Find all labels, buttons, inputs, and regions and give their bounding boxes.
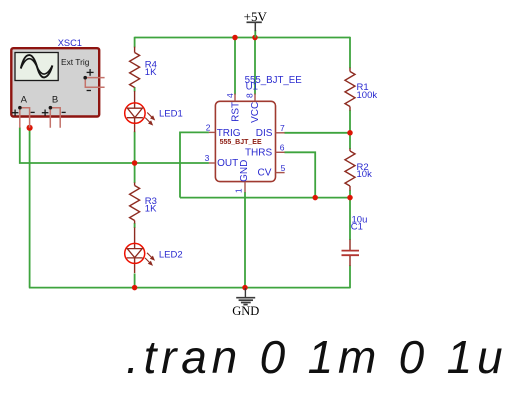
junction dot R2 C1 node xyxy=(347,195,353,201)
ground symbol GND xyxy=(232,288,259,318)
svg-text:7: 7 xyxy=(280,123,285,133)
svg-text:CV: CV xyxy=(257,167,271,178)
power +5V symbol xyxy=(244,9,268,38)
resistor R3 xyxy=(130,183,140,224)
wire R3 to LED2 xyxy=(134,223,136,228)
wire LED2 to bottom rail xyxy=(134,274,136,289)
scope channel A plus sign xyxy=(12,110,19,116)
svg-text:8: 8 xyxy=(245,93,255,98)
svg-text:GND: GND xyxy=(239,160,250,182)
wire DIS node to R2 xyxy=(349,133,351,150)
wire DIS row xyxy=(284,132,350,134)
scope channel B plus sign xyxy=(42,110,49,116)
junction dot scope A- xyxy=(27,125,33,131)
oscilloscope XSC1 body xyxy=(11,48,99,116)
svg-text:10k: 10k xyxy=(357,169,373,180)
LED LED1 xyxy=(125,91,155,132)
op-amp U1 555 timer body xyxy=(215,101,275,181)
junction dot OUT node xyxy=(132,160,138,166)
svg-text:+5V: +5V xyxy=(244,9,268,24)
scope Ext Trig plus sign xyxy=(87,69,94,76)
wire RST to rail xyxy=(234,37,236,95)
svg-text:B: B xyxy=(52,95,58,106)
svg-text:4: 4 xyxy=(225,93,235,98)
wire C1 to bottom rail xyxy=(349,266,351,289)
svg-text:1K: 1K xyxy=(145,203,157,214)
wire R2 to mid node xyxy=(349,190,351,198)
svg-text:.tran 0 1m 0 1u: .tran 0 1m 0 1u xyxy=(126,331,507,383)
pin OUT lead xyxy=(209,162,216,164)
wire mid rail TRIG-THRS-C1 xyxy=(180,197,351,199)
scope Ext Trig terminal hook xyxy=(85,78,104,88)
scope channel A terminal hook xyxy=(20,108,30,128)
wire OUT node to R3 xyxy=(134,163,136,183)
scope channel A terminal dot xyxy=(18,106,22,110)
scope channel A minus sign xyxy=(31,111,35,113)
junction dot LED2 bottom xyxy=(132,285,138,291)
pin RST lead xyxy=(234,94,236,102)
wire GND pin to bottom rail xyxy=(244,192,246,288)
wire THRS row and down xyxy=(284,152,315,197)
svg-text:RST: RST xyxy=(230,102,241,122)
wire TRIG loop xyxy=(180,132,209,197)
junction dot THRS mid rail xyxy=(312,195,318,201)
resistor R2 xyxy=(345,149,355,191)
wire mid node to C1 xyxy=(349,198,351,240)
svg-text:LED2: LED2 xyxy=(159,250,183,261)
sine wave trace 1 xyxy=(21,55,53,77)
pin TRIG lead xyxy=(209,131,216,133)
resistor R4 xyxy=(130,47,140,88)
svg-text:XSC1: XSC1 xyxy=(58,38,82,48)
pin THRS lead xyxy=(276,151,285,153)
svg-text:6: 6 xyxy=(280,143,285,153)
svg-text:1: 1 xyxy=(233,188,243,193)
oscilloscope display xyxy=(15,53,58,81)
svg-text:VCC: VCC xyxy=(250,102,261,123)
svg-text:TRIG: TRIG xyxy=(217,128,241,139)
svg-text:1K: 1K xyxy=(145,67,157,78)
capacitor C1 xyxy=(342,240,360,267)
svg-text:3: 3 xyxy=(205,153,210,163)
svg-text:100k: 100k xyxy=(357,90,378,101)
wire top +5V rail xyxy=(135,37,350,39)
wire OUT row to scope A+ xyxy=(20,128,209,164)
wire R4 to LED1 xyxy=(134,87,136,92)
LED LED2 xyxy=(125,227,154,273)
svg-text:A: A xyxy=(21,95,28,106)
svg-text:DIS: DIS xyxy=(256,128,273,139)
svg-text:OUT: OUT xyxy=(217,158,238,169)
junction dot GND rail xyxy=(242,285,248,291)
scope Ext Trig minus sign xyxy=(87,90,91,92)
wire LED1 to OUT node xyxy=(134,132,136,164)
scope channel B minus sign xyxy=(62,111,66,113)
svg-text:2: 2 xyxy=(206,123,211,133)
svg-text:GND: GND xyxy=(232,304,259,318)
svg-text:555_BJT_EE: 555_BJT_EE xyxy=(220,139,262,146)
junction dot rail VCC xyxy=(252,35,258,41)
pin CV lead xyxy=(276,172,285,174)
wire R1 top segment xyxy=(349,37,351,68)
pin DIS lead xyxy=(276,132,285,134)
sine wave trace 2 xyxy=(21,59,53,74)
pin GND lead xyxy=(244,182,246,193)
junction dot DIS node xyxy=(347,130,353,136)
pin VCC lead xyxy=(254,94,256,102)
wire bottom ground rail xyxy=(29,287,350,289)
svg-text:C1: C1 xyxy=(351,221,363,232)
svg-text:5: 5 xyxy=(281,163,286,173)
scope Ext Trig terminal dot xyxy=(83,76,87,80)
wire R1 to DIS node xyxy=(349,110,351,133)
junction dot rail RST xyxy=(232,35,238,41)
resistor R1 xyxy=(345,68,355,111)
svg-text:THRS: THRS xyxy=(245,148,273,159)
wire VCC to rail xyxy=(254,37,256,95)
scope channel B terminal dot xyxy=(49,106,53,110)
svg-text:LED1: LED1 xyxy=(159,109,183,120)
scope channel B terminal hook xyxy=(50,108,60,128)
svg-text:U1: U1 xyxy=(246,81,258,92)
svg-text:Ext Trig: Ext Trig xyxy=(61,57,90,67)
wire scope A- down left side xyxy=(29,128,31,288)
wire R4 top segment xyxy=(134,37,136,48)
